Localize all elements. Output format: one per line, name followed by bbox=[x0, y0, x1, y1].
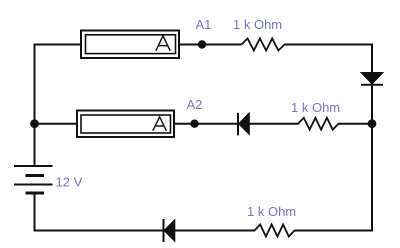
svg-text:A1: A1 bbox=[196, 17, 212, 32]
wire bottom left segment bbox=[34, 230, 256, 232]
diode D2 (middle row, cathode left) bbox=[238, 113, 249, 136]
node A2 (junction dot) bbox=[190, 120, 198, 128]
ammeter A1 (top) bbox=[81, 31, 179, 59]
junction left rail / middle row bbox=[30, 119, 39, 128]
wire middle resistor to right junction bbox=[338, 123, 372, 125]
junction right rail / middle row bbox=[368, 119, 377, 128]
resistor 1 k Ohm (middle) bbox=[298, 118, 339, 130]
resistor 1 k Ohm (top) bbox=[242, 39, 285, 51]
svg-text:1 k Ohm: 1 k Ohm bbox=[233, 17, 282, 32]
svg-text:12 V: 12 V bbox=[56, 175, 83, 190]
battery 12 V bbox=[14, 166, 53, 193]
svg-text:A2: A2 bbox=[187, 97, 203, 112]
diode D1 (top right, cathode down) bbox=[361, 73, 383, 85]
wire ammeter A1 output to node A1 bbox=[178, 44, 202, 46]
wire top-left horizontal bbox=[35, 44, 83, 46]
wire left rail bottom (battery to bottom wire) bbox=[34, 193, 36, 232]
diode D3 (bottom row, cathode left) bbox=[164, 219, 175, 242]
wire node A2 through diode to middle resistor bbox=[195, 123, 299, 125]
wire middle row left segment bbox=[35, 123, 79, 125]
wire right rail bbox=[371, 44, 373, 232]
wire resistor to top-right corner bbox=[284, 44, 373, 46]
svg-text:1 k Ohm: 1 k Ohm bbox=[291, 100, 340, 115]
wire node A1 to resistor bbox=[202, 44, 242, 46]
wire bottom right segment bbox=[294, 230, 373, 232]
wire left rail top bbox=[34, 44, 36, 167]
resistor 1 k Ohm (bottom) bbox=[255, 225, 295, 237]
ammeter A2 (middle) bbox=[77, 111, 174, 138]
svg-text:1 k Ohm: 1 k Ohm bbox=[247, 204, 296, 219]
wire ammeter A2 output to node A2 bbox=[173, 123, 195, 125]
node A1 (junction dot) bbox=[198, 40, 206, 48]
